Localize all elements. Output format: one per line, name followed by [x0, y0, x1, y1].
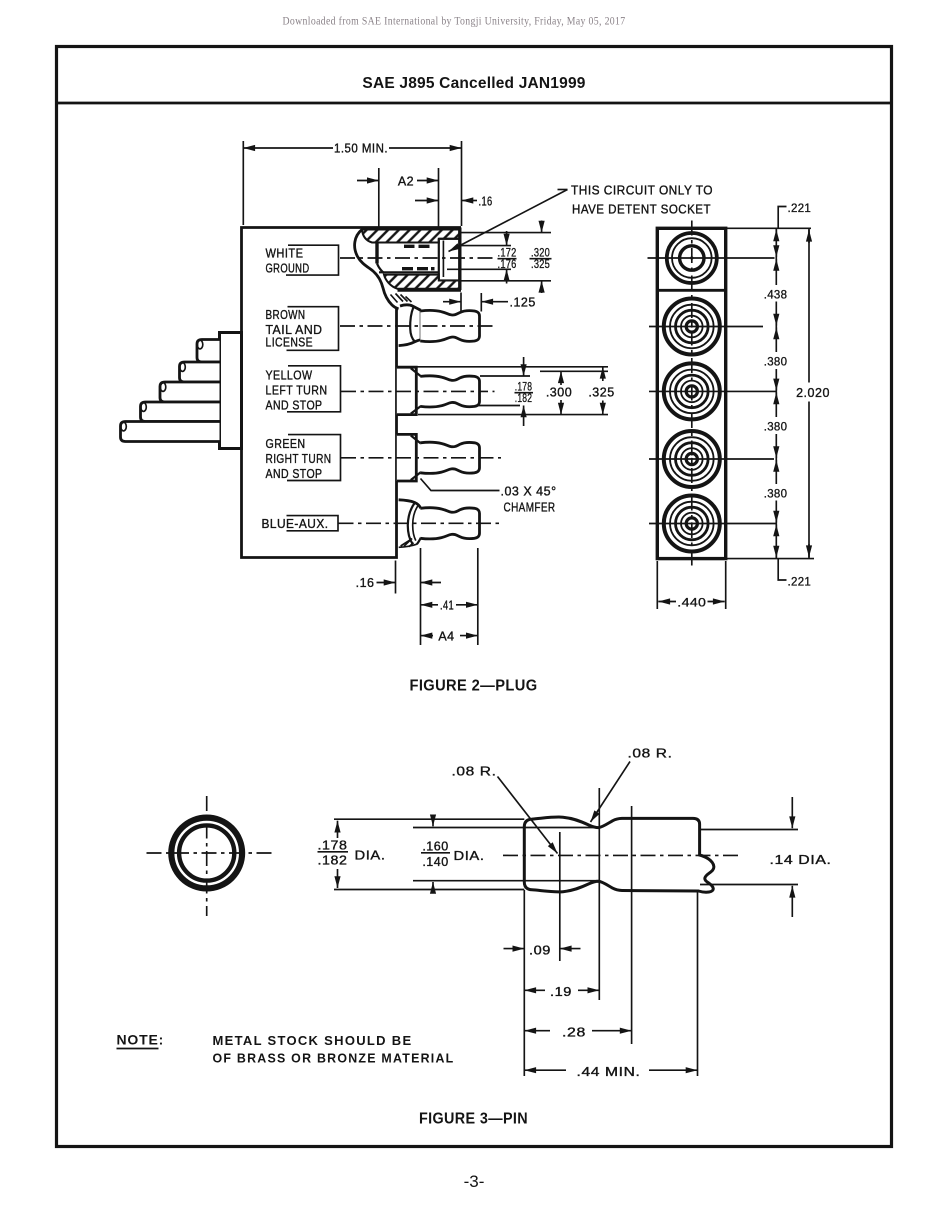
top edge extension [726, 227, 811, 229]
svg-text:.16: .16 [479, 195, 493, 209]
svg-text:A4: A4 [438, 630, 454, 644]
label box WHITE GROUND [286, 245, 339, 275]
small diameter extension lines [700, 829, 798, 831]
socket 4 horizontal centerline [649, 458, 774, 460]
svg-text:.182: .182 [318, 854, 348, 868]
dimension .178/.182 (yellow) [523, 357, 525, 376]
svg-text:.14 DIA.: .14 DIA. [770, 852, 832, 867]
pin end view outer ring [171, 818, 242, 889]
dimension .14 DIA [791, 797, 793, 828]
svg-text:.03 X 45°: .03 X 45° [501, 485, 557, 499]
svg-text:Downloaded from SAE Internatio: Downloaded from SAE International by Ton… [283, 16, 626, 28]
body molded contour S-curve [355, 230, 399, 310]
svg-text:GROUND: GROUND [266, 262, 310, 276]
pin end view inner ring [179, 825, 234, 880]
chamfer leader and note [421, 479, 500, 491]
socket 4 [664, 431, 720, 487]
dimension .41 [421, 604, 439, 606]
svg-text:.44 MIN.: .44 MIN. [577, 1065, 641, 1079]
dimension 2.020 [808, 228, 810, 558]
green terminal barrel [420, 442, 479, 473]
label box BROWN TAIL AND LICENSE [287, 307, 339, 351]
dimension A2 [357, 180, 379, 182]
svg-text:.221: .221 [788, 203, 812, 215]
svg-text:YELLOW: YELLOW [266, 369, 313, 383]
svg-text:.300: .300 [546, 386, 572, 400]
svg-text:.160: .160 [422, 840, 448, 854]
dimension .28 [524, 1030, 550, 1032]
svg-text:.178: .178 [515, 382, 533, 394]
svg-text:.19: .19 [550, 985, 572, 999]
svg-text:.380: .380 [764, 489, 788, 501]
socket contact dashes lower [402, 267, 435, 270]
svg-text:METAL STOCK SHOULD BE: METAL STOCK SHOULD BE [213, 1033, 413, 1048]
dimension A4 [421, 635, 434, 637]
dimension 1.50 MIN [243, 147, 333, 149]
header separator line [57, 102, 892, 105]
svg-text:1.50 MIN.: 1.50 MIN. [334, 142, 388, 156]
wire 2 [180, 362, 220, 382]
svg-text:FIGURE 2—PLUG: FIGURE 2—PLUG [410, 678, 538, 695]
dimension .44 MIN [524, 1069, 566, 1071]
large diameter extension lines [334, 818, 524, 820]
dimension .172/.176 arrows [506, 231, 508, 246]
dimension .125 [460, 293, 462, 312]
socket 1 (detent) [667, 233, 717, 283]
yellow terminal base [397, 367, 417, 414]
green terminal base [397, 434, 417, 481]
svg-text:WHITE: WHITE [266, 247, 304, 261]
neck reference lines inside pin [413, 827, 599, 829]
socket contact dashes upper [404, 245, 430, 248]
dimension .160/.140 DIA [432, 820, 434, 827]
svg-text:.08 R.: .08 R. [628, 746, 673, 761]
front view housing [657, 228, 725, 558]
bottom dimension extension lines [395, 561, 397, 594]
svg-text:.125: .125 [510, 296, 536, 310]
dimension .440 [656, 561, 658, 609]
socket bore extension lines [461, 232, 551, 234]
svg-text:.178: .178 [318, 839, 348, 853]
wire bundle block [220, 333, 242, 449]
svg-text:.172: .172 [498, 248, 517, 260]
label box GREEN RIGHT TURN AND STOP [287, 435, 341, 481]
wire 3 [160, 382, 220, 402]
page border frame [57, 47, 892, 1147]
socket 1 horizontal centerline [648, 257, 775, 259]
dimension .320/.325 arrows [541, 221, 543, 233]
svg-text:AND STOP: AND STOP [266, 467, 323, 481]
svg-text:.140: .140 [422, 855, 448, 869]
svg-text:.325: .325 [531, 259, 550, 271]
svg-text:SAE J895 Cancelled JAN1999: SAE J895 Cancelled JAN1999 [362, 75, 585, 92]
wire 1 [197, 340, 220, 363]
svg-text:A2: A2 [398, 175, 414, 189]
svg-text:-3-: -3- [464, 1172, 485, 1191]
svg-text:.08 R.: .08 R. [452, 764, 497, 779]
svg-text:HAVE DETENT SOCKET: HAVE DETENT SOCKET [572, 203, 711, 217]
detent socket insert [439, 239, 460, 281]
wire 4 [141, 402, 220, 422]
wire 5 [121, 422, 220, 442]
svg-text:.320: .320 [531, 248, 550, 260]
body right face edge [458, 228, 461, 291]
dimension A2 extension lines [378, 168, 380, 228]
socket 3 [664, 363, 720, 419]
svg-text:FIGURE 3—PIN: FIGURE 3—PIN [419, 1111, 528, 1128]
dimension .178/.182 DIA [337, 821, 339, 838]
dimension .19 [524, 989, 545, 991]
centerline brown circuit [340, 325, 493, 327]
svg-text:2.020: 2.020 [796, 386, 830, 400]
centerline green circuit [341, 457, 501, 459]
cross-section cavity left wall [375, 243, 378, 264]
svg-text:CHAMFER: CHAMFER [504, 501, 556, 515]
brown terminal flange [420, 311, 422, 341]
svg-text:LICENSE: LICENSE [266, 336, 314, 350]
svg-text:.325: .325 [588, 386, 614, 400]
centerline yellow circuit [341, 390, 495, 392]
cavity bottom line [379, 271, 439, 273]
svg-text:DIA.: DIA. [355, 848, 386, 863]
svg-text:DIA.: DIA. [454, 848, 485, 863]
socket 5 [664, 496, 720, 552]
reference verticals [559, 832, 561, 961]
svg-text:.440: .440 [677, 598, 706, 610]
front view vertical centerline [691, 221, 693, 567]
dimension .325 (yellow) [602, 367, 604, 381]
svg-text:BLUE-AUX.: BLUE-AUX. [262, 517, 329, 531]
cross-section bottom hatched wall [384, 275, 460, 289]
yellow terminal barrel [420, 376, 479, 407]
blue terminal barrel [420, 508, 479, 539]
svg-text:BROWN: BROWN [266, 308, 306, 322]
socket 5 horizontal centerline [649, 523, 777, 525]
svg-text:.438: .438 [764, 290, 788, 302]
svg-text:.221: .221 [788, 577, 812, 589]
yellow diameter extension lines [402, 366, 608, 368]
WHITE/GROUND terminal cross-section : top hatched wall [362, 230, 460, 243]
svg-text:AND STOP: AND STOP [266, 399, 323, 413]
svg-text:.41: .41 [440, 599, 454, 613]
pin profile outline [524, 817, 714, 892]
bottom step line [398, 289, 462, 292]
dimension .221 bottom [778, 559, 786, 580]
centerline white circuit [340, 257, 497, 259]
brown terminal boot [400, 305, 421, 310]
pin end view crosshair [206, 796, 208, 916]
dimension 1.50 MIN extension lines [242, 141, 244, 225]
svg-text:LEFT TURN: LEFT TURN [266, 384, 328, 398]
svg-text:.176: .176 [498, 259, 517, 271]
svg-text:.09: .09 [529, 944, 551, 958]
chain dimension line [775, 228, 777, 558]
chain dimension arrowheads [775, 230, 777, 242]
dimension .16 (top) [415, 200, 439, 202]
divider below detent socket [657, 289, 725, 292]
socket 2 horizontal centerline [649, 326, 763, 328]
brown terminal barrel [420, 310, 479, 341]
svg-text:NOTE:: NOTE: [117, 1032, 165, 1048]
pin centerline [503, 854, 741, 856]
dimension .221 top [778, 207, 786, 229]
svg-text:.28: .28 [562, 1026, 586, 1040]
socket 2 [664, 299, 720, 355]
bottom edge extension [726, 558, 814, 560]
centerline blue circuit [339, 522, 502, 524]
svg-text:GREEN: GREEN [266, 437, 306, 451]
svg-text:.182: .182 [515, 393, 533, 405]
dimension .300 [560, 371, 562, 385]
label box BLUE-AUX [287, 516, 339, 531]
svg-text:RIGHT TURN: RIGHT TURN [266, 452, 332, 466]
svg-text:.380: .380 [764, 357, 788, 369]
blue terminal boot [399, 500, 421, 509]
svg-text:.380: .380 [764, 422, 788, 434]
svg-text:THIS CIRCUIT ONLY TO: THIS CIRCUIT ONLY TO [571, 184, 713, 198]
svg-text:.16: .16 [356, 576, 375, 590]
label box YELLOW LEFT TURN AND STOP [287, 366, 341, 412]
plug body outline [242, 228, 462, 558]
socket 3 horizontal centerline [649, 390, 776, 392]
dimension .09 [504, 948, 525, 950]
svg-text:OF BRASS OR BRONZE MATERIAL: OF BRASS OR BRONZE MATERIAL [213, 1051, 455, 1066]
